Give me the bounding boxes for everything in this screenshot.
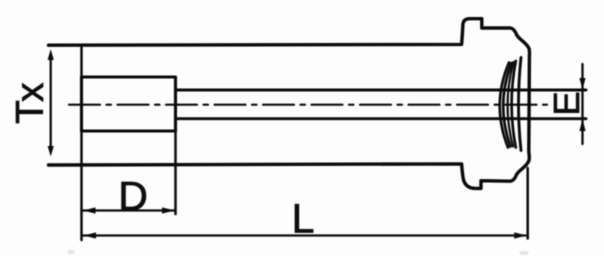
shaft lower line (extends right as E extension)	[176, 117, 587, 120]
svg-text:Tx: Tx	[9, 82, 52, 124]
faint scan smudge right	[519, 251, 529, 255]
faint scan smudge left	[67, 250, 75, 254]
Tx dimension line	[50, 56, 52, 150]
center line	[69, 104, 547, 106]
E arrow up	[579, 119, 585, 131]
washer face arc outer	[500, 63, 509, 148]
washer face arc middle	[508, 62, 514, 147]
D arrow left	[83, 207, 96, 213]
svg-text:E: E	[546, 91, 587, 115]
shaft upper line (extends right as E extension)	[176, 89, 587, 92]
extension line right of collar (D datum)	[174, 131, 177, 214]
E arrow down	[579, 78, 585, 90]
flange upper line with head outline and flange lower line	[49, 19, 530, 189]
washer rim near line	[512, 61, 516, 148]
washer face arc inner	[503, 63, 511, 147]
L dimension line	[83, 234, 526, 236]
D arrow right	[162, 207, 175, 213]
Tx arrow down	[48, 146, 54, 157]
E dimension line	[581, 64, 583, 144]
washer rim far line	[519, 58, 522, 151]
extension line left (part left face, D/L datum)	[80, 45, 83, 240]
svg-text:L: L	[292, 196, 315, 242]
extension line right end (L datum)	[526, 168, 529, 239]
Tx arrow up	[48, 49, 54, 60]
D dimension line	[83, 209, 175, 211]
svg-text:D: D	[118, 173, 148, 219]
L arrow right	[514, 232, 527, 238]
collar block	[82, 77, 176, 131]
L arrow left	[84, 232, 97, 238]
